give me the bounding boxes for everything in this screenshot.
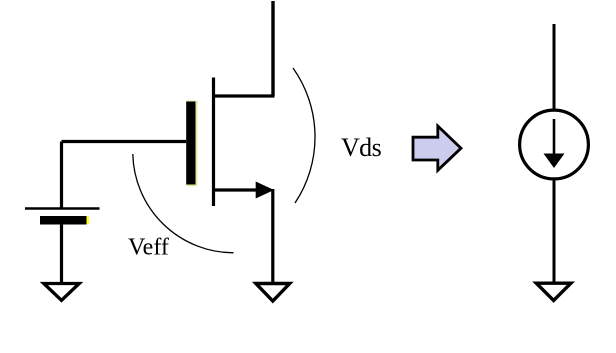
wire: current source bottom vertical bbox=[553, 179, 556, 284]
wire: drain horizontal to channel bbox=[214, 94, 275, 97]
ground symbol (right) bbox=[536, 283, 571, 300]
block arrow (implies) bbox=[413, 126, 461, 170]
wire: battery bottom vertical bbox=[60, 225, 63, 285]
wire: battery top vertical bbox=[60, 142, 63, 209]
transistor M1 gate bar yellow highlight bbox=[186, 101, 197, 187]
transistor M1 channel line bbox=[212, 78, 215, 207]
wire: gate horizontal bbox=[62, 140, 187, 143]
current source I1 arrow shaft bbox=[553, 119, 556, 156]
current source I1 arrowhead bbox=[544, 154, 565, 169]
svg-text:Vds: Vds bbox=[341, 133, 382, 162]
battery V1 top plate (thin long) bbox=[25, 207, 100, 210]
wire: source vertical down bbox=[271, 189, 274, 284]
svg-text:Veff: Veff bbox=[128, 235, 169, 261]
Veff measurement arc bbox=[133, 154, 234, 253]
Vds measurement arc bbox=[293, 68, 315, 203]
wire: source horizontal bbox=[214, 188, 261, 191]
transistor M1 gate bar bbox=[186, 102, 195, 185]
wire: current source top vertical bbox=[553, 24, 556, 110]
transistor M1 source arrowhead bbox=[256, 182, 274, 199]
current source I1 circle bbox=[520, 110, 589, 179]
ground symbol (left) bbox=[44, 284, 79, 301]
battery V1 bottom plate yellow highlight bbox=[84, 216, 89, 224]
wire: drain vertical (top) bbox=[271, 1, 274, 96]
battery V1 bottom plate (thick short) bbox=[40, 216, 87, 225]
ground symbol (middle) bbox=[256, 284, 290, 302]
